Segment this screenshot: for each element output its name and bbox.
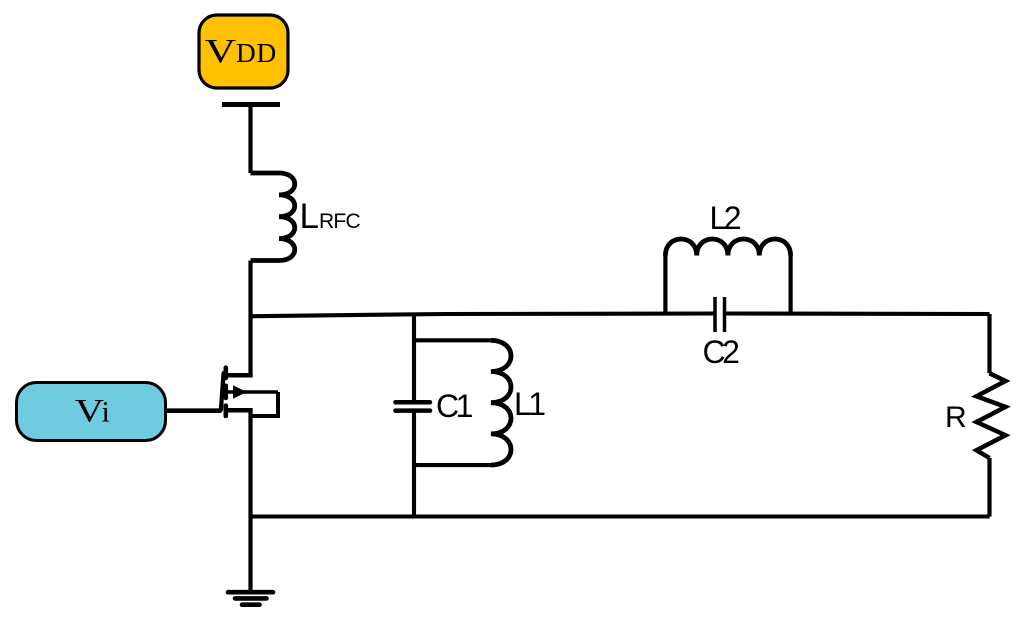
svg-text:C1: C1 (436, 388, 473, 424)
inductor L1 top stub (414, 338, 491, 342)
capacitor C1 (395, 402, 430, 410)
svg-text:LRFC: LRFC (300, 197, 361, 236)
svg-text:L1: L1 (514, 386, 545, 422)
power bar under VDD (222, 102, 280, 107)
node drain / top rail left segment (251, 314, 716, 317)
inductor L2 left riser (663, 256, 667, 316)
transistor Q1 gate bar (221, 373, 224, 410)
wire top rail to R (987, 314, 991, 373)
capacitor C2 (715, 297, 725, 332)
input label box Vi (17, 383, 166, 441)
bottom rail (251, 514, 990, 518)
transistor Q1 channel segment middle (224, 386, 229, 398)
inductor L1 coil (491, 340, 511, 465)
inductor L1 bottom stub (414, 463, 491, 467)
wire R to bottom rail (987, 458, 991, 517)
transistor Q1 channel segment bottom (224, 406, 229, 416)
transistor Q1 channel segment top (224, 368, 229, 378)
transistor Q1 body-source tie (251, 392, 279, 416)
transistor Q1 body arrow (233, 385, 247, 399)
wire LRFC to drain node (248, 261, 252, 378)
svg-text:L2: L2 (710, 200, 741, 236)
wire Vi to gate (166, 408, 222, 413)
resistor R zigzag (977, 373, 1006, 458)
transistor Q1 drain lead (226, 373, 253, 378)
wire VDD bar to LRFC (248, 105, 252, 174)
top rail right segment (725, 311, 990, 316)
inductor L2 right riser (788, 256, 792, 316)
svg-text:V: V (205, 32, 236, 70)
ground (228, 592, 273, 605)
inductor L2 coil (665, 239, 790, 256)
wire C1 to bottom rail (412, 413, 416, 517)
svg-text:R: R (945, 401, 967, 434)
transistor Q1 source lead (226, 408, 253, 413)
inductor LRFC (251, 173, 295, 261)
supply label box VDD (199, 15, 288, 88)
wire source to ground (248, 408, 252, 591)
svg-text:C2: C2 (703, 334, 740, 370)
transistor Q1 body lead (226, 390, 278, 393)
svg-text:DD: DD (236, 38, 277, 68)
svg-text:V: V (75, 392, 105, 429)
wire top rail to C1 (412, 315, 416, 401)
svg-text:i: i (102, 396, 110, 429)
